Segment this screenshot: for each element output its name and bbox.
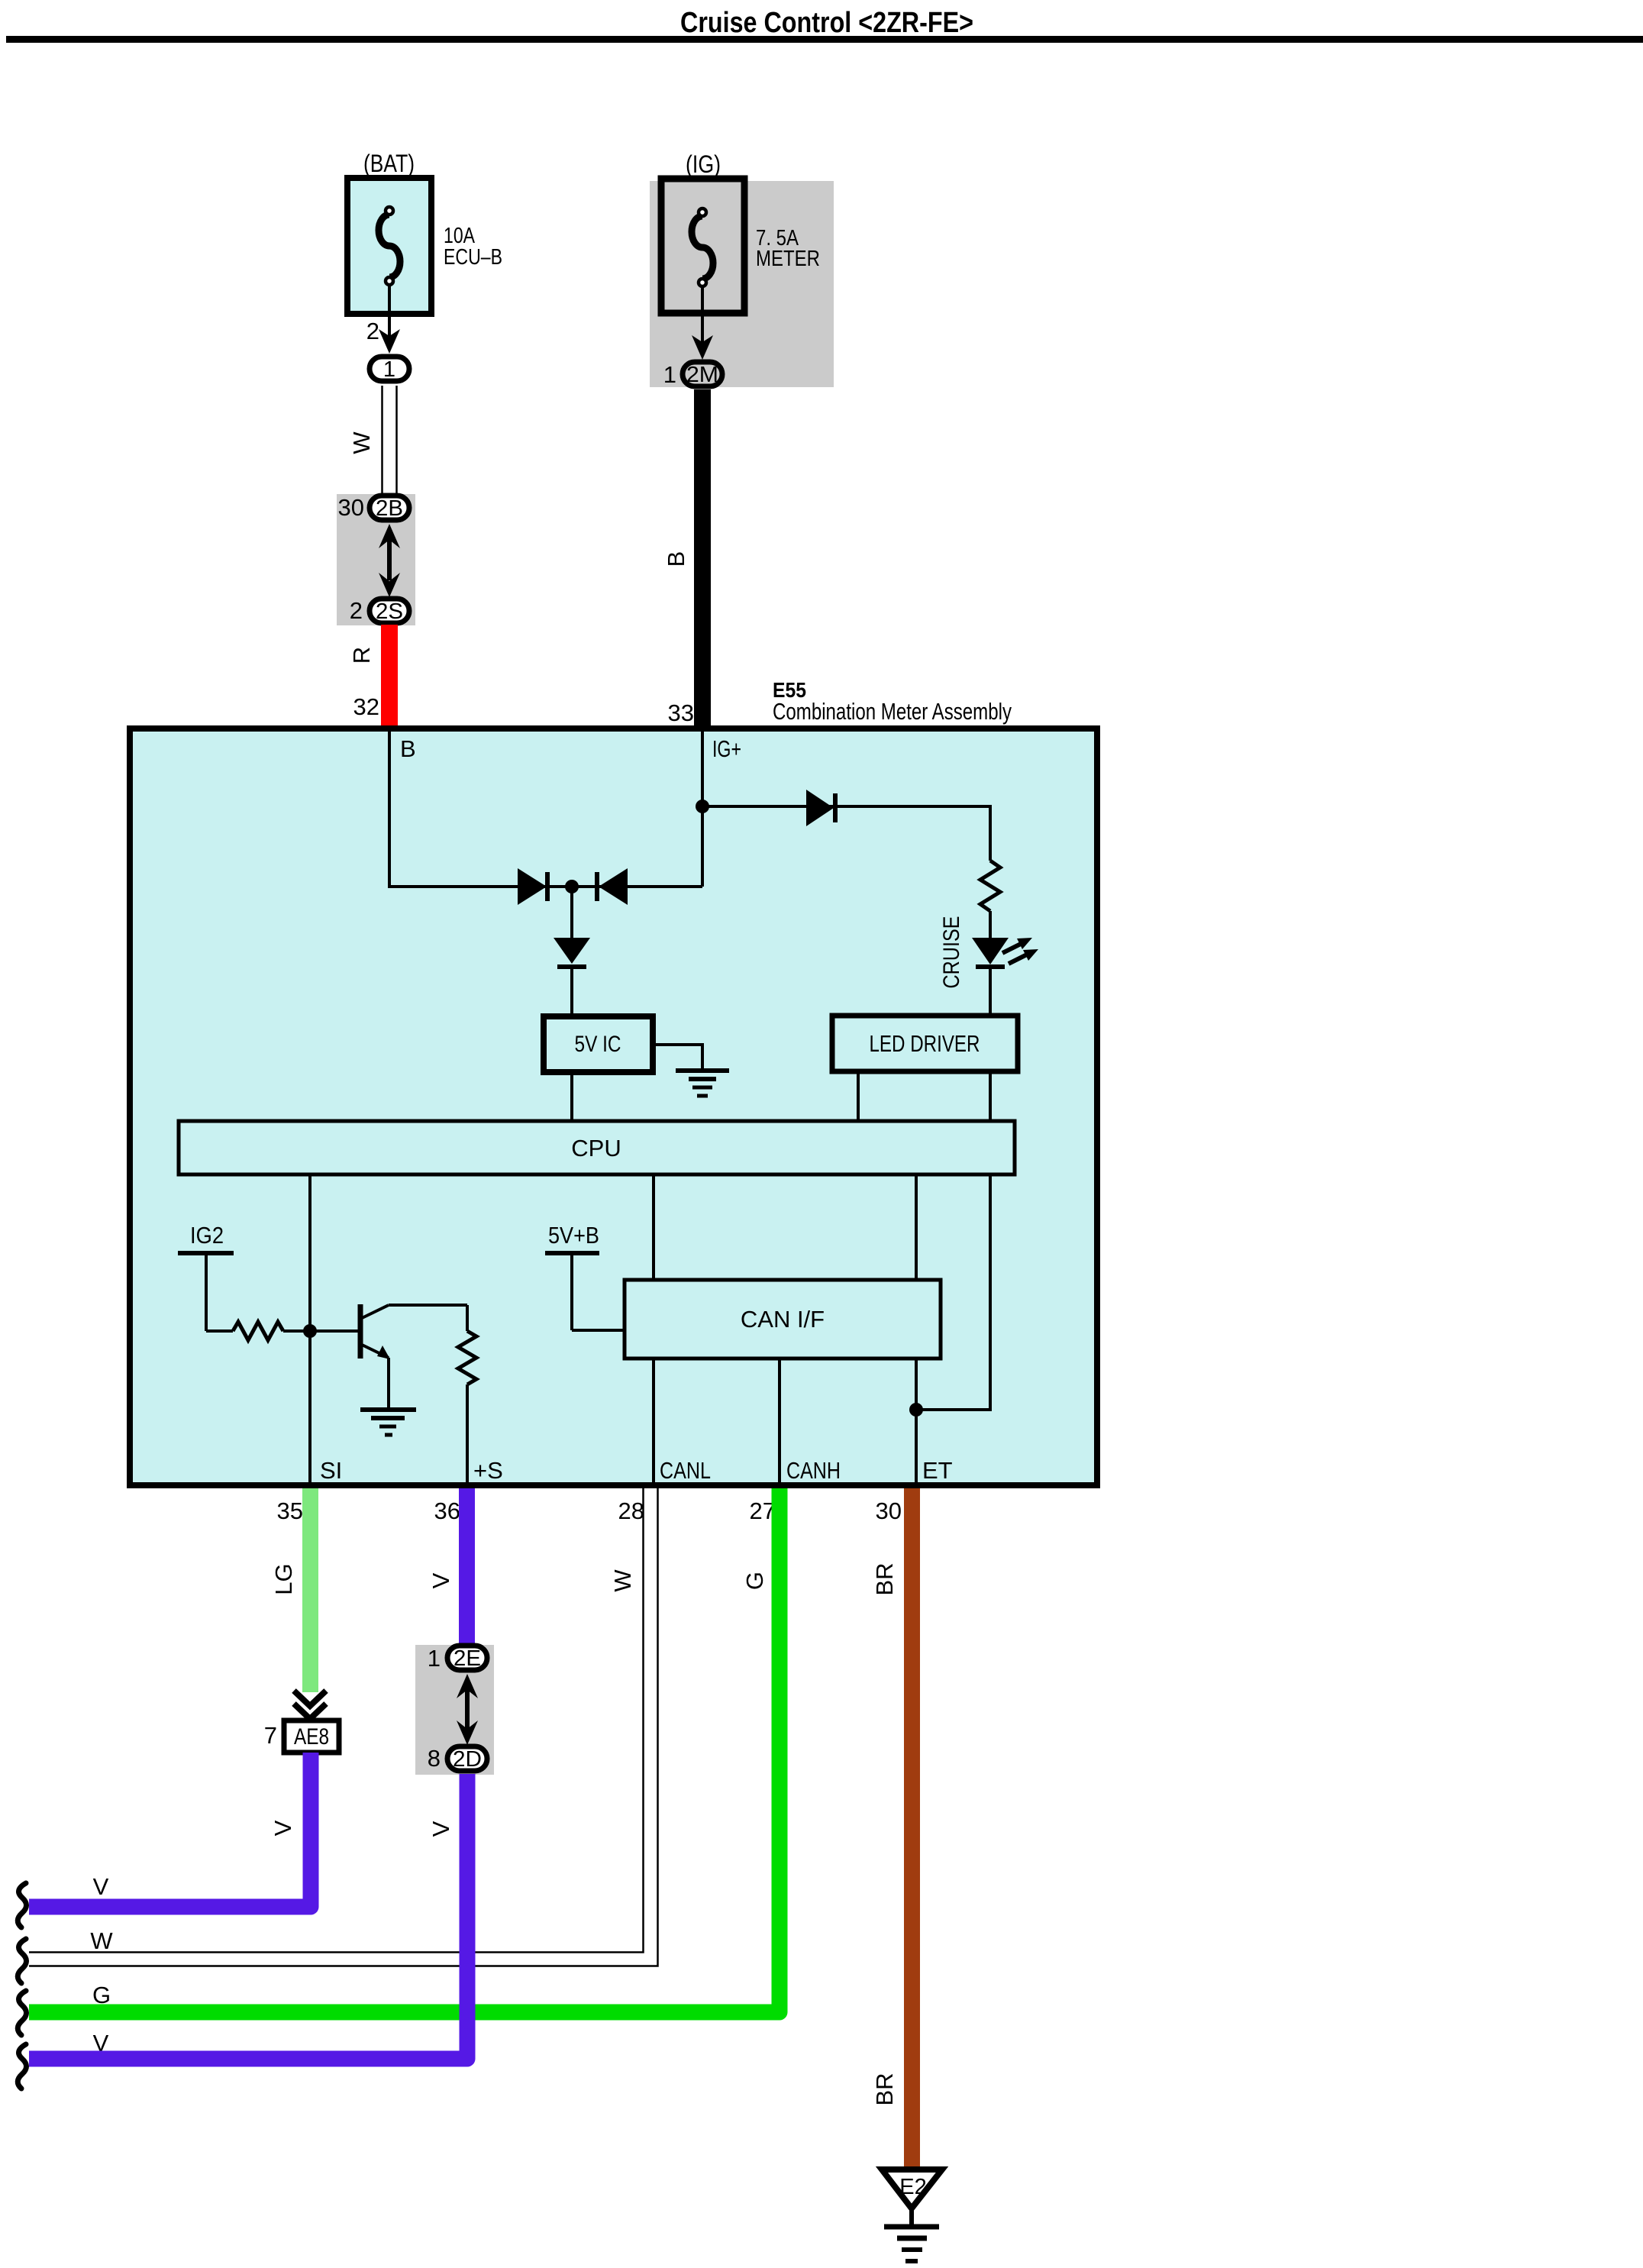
node junction diodes [565, 880, 579, 893]
wire W (double line) connector 1 to 2B [381, 386, 383, 495]
svg-text:33: 33 [668, 699, 694, 726]
svg-text:1: 1 [663, 361, 676, 388]
diode D3 [806, 790, 834, 826]
gray block IG [650, 181, 834, 387]
resistor base [233, 1322, 283, 1340]
wires CAN I/F to pins [652, 1359, 655, 1485]
wire BR pin 30 [904, 1488, 920, 2169]
svg-text:W: W [348, 431, 375, 454]
svg-text:R: R [348, 647, 375, 664]
svg-text:LG: LG [270, 1563, 297, 1594]
svg-text:V: V [93, 1873, 109, 1900]
LED DRIVER box [832, 1016, 1018, 1071]
svg-text:B: B [400, 735, 416, 762]
svg-text:28: 28 [618, 1497, 644, 1524]
svg-text:1: 1 [428, 1645, 441, 1672]
svg-text:Cruise Control <2ZR-FE>: Cruise Control <2ZR-FE> [680, 7, 973, 39]
svg-text:2M: 2M [686, 363, 718, 387]
IG2 supply bar [178, 1251, 234, 1255]
svg-text:IG+: IG+ [712, 735, 741, 762]
svg-text:CANL: CANL [660, 1457, 711, 1484]
svg-text:CPU: CPU [571, 1135, 621, 1161]
svg-text:30: 30 [338, 494, 364, 521]
title rule [6, 36, 1643, 43]
5V+B supply bar [545, 1251, 599, 1255]
wire fuse to connector 2M [701, 287, 704, 346]
svg-text:36: 36 [434, 1497, 460, 1524]
wire 5V IC to ground [656, 1045, 702, 1071]
svg-text:+S: +S [473, 1457, 503, 1484]
svg-text:Combination Meter Assembly: Combination Meter Assembly [773, 698, 1012, 725]
fuse METER element [692, 216, 713, 279]
wires CPU to CAN I/F [652, 1174, 655, 1280]
fuse METER body [661, 179, 744, 313]
wires LED DRIVER to CPU [857, 1071, 860, 1121]
svg-text:G: G [92, 1982, 111, 2008]
wire SI from CPU [308, 1174, 311, 1485]
fuse ECU-B body [347, 178, 431, 314]
continuation squiggle W [18, 1939, 26, 1983]
wire W pin 28 (double line) [29, 1488, 644, 1953]
connector 2D [447, 1746, 487, 1771]
transistor Q1 [358, 1304, 363, 1359]
svg-text:5V IC: 5V IC [575, 1032, 621, 1057]
continuation squiggle V1 [18, 1883, 26, 1927]
wire V pin 36 [459, 1488, 475, 1644]
svg-text:V: V [428, 1572, 454, 1588]
node SI base [303, 1324, 317, 1338]
wire LG pin 35 [302, 1488, 318, 1692]
svg-text:CAN I/F: CAN I/F [741, 1306, 825, 1333]
wire ET to CPU [916, 1174, 990, 1410]
ground internal 2 [360, 1407, 416, 1412]
svg-text:V: V [270, 1820, 296, 1836]
E55 combination meter box [130, 729, 1097, 1485]
wire IG+ internal [701, 732, 704, 887]
ground E2 [882, 2169, 942, 2208]
ground internal 1 [676, 1068, 729, 1073]
svg-text:7: 7 [264, 1722, 277, 1749]
chevron arrows into AE8 [294, 1691, 326, 1706]
svg-text:V: V [428, 1821, 454, 1837]
node ET junction [909, 1403, 923, 1417]
wire fuse to connector 1 [388, 286, 391, 341]
svg-text:1: 1 [383, 357, 395, 382]
svg-text:G: G [741, 1572, 768, 1590]
svg-text:E2: E2 [899, 2175, 926, 2199]
connector 2E/2D shield [415, 1645, 494, 1775]
svg-text:8: 8 [428, 1745, 441, 1772]
svg-text:BR: BR [871, 1562, 898, 1595]
svg-text:(BAT): (BAT) [363, 150, 415, 177]
svg-text:(IG): (IG) [686, 150, 721, 178]
arrow into connector 1 [379, 329, 400, 354]
diode D1 [518, 868, 547, 905]
wire R 2S to pin 32 [381, 625, 398, 729]
svg-text:W: W [90, 1927, 113, 1954]
wire G pin 27 [29, 1488, 780, 2012]
5V IC box [544, 1016, 653, 1072]
resistor +S [466, 1305, 469, 1331]
connector 2E [447, 1646, 487, 1670]
wire B 2M to pin 33 [694, 389, 711, 729]
junction arrows 2E-2D [457, 1674, 478, 1698]
connector AE8 [284, 1720, 339, 1753]
svg-text:32: 32 [353, 693, 379, 720]
svg-text:2: 2 [350, 597, 363, 624]
connector 1 [370, 357, 409, 381]
svg-text:METER: METER [756, 247, 820, 271]
svg-text:2S: 2S [376, 599, 403, 624]
svg-text:B: B [663, 551, 689, 567]
connector 2B [370, 496, 409, 520]
svg-text:ECU–B: ECU–B [444, 245, 502, 270]
connector 2M [683, 362, 722, 386]
svg-text:CRUISE: CRUISE [939, 916, 964, 989]
svg-text:2B: 2B [376, 496, 403, 521]
LED cruise [972, 938, 1009, 964]
svg-text:LED DRIVER: LED DRIVER [870, 1030, 980, 1057]
node IG+ branch [696, 800, 709, 813]
wire LED to driver [989, 967, 992, 1016]
wire V AE8 down-left [29, 1753, 311, 1907]
svg-text:2E: 2E [454, 1646, 481, 1671]
svg-text:W: W [609, 1569, 636, 1592]
resistor cruise lamp [980, 861, 1000, 911]
wire emitter to ground [387, 1358, 390, 1409]
connector 2B/2S shield [337, 494, 415, 625]
continuation squiggle V2 [18, 2044, 26, 2089]
svg-text:SI: SI [320, 1457, 342, 1484]
svg-text:2D: 2D [453, 1747, 482, 1772]
svg-text:5V+B: 5V+B [548, 1222, 599, 1249]
svg-text:35: 35 [277, 1497, 303, 1524]
diode D4 [554, 938, 590, 964]
svg-text:2: 2 [366, 318, 379, 344]
svg-text:30: 30 [876, 1497, 902, 1524]
arrow into connector 2M [692, 335, 713, 360]
svg-text:BR: BR [871, 2073, 898, 2105]
connector 2S [370, 599, 409, 623]
wire V 2D down-left [29, 1774, 467, 2059]
svg-text:CANH: CANH [786, 1457, 841, 1484]
junction arrows 2B-2S [379, 524, 400, 548]
svg-text:AE8: AE8 [294, 1724, 329, 1749]
wire IG+ to cruise lamp [702, 806, 990, 861]
fuse ECU-B element [379, 215, 400, 277]
svg-text:IG2: IG2 [190, 1222, 224, 1249]
CAN I/F box [625, 1280, 941, 1359]
continuation squiggle G [18, 1991, 26, 2035]
svg-text:ET: ET [922, 1457, 953, 1484]
wire diode junction down [570, 887, 573, 938]
diode D2 [599, 868, 628, 905]
CPU box [179, 1121, 1015, 1174]
wire B internal [389, 732, 702, 887]
wire 5VIC to CPU [570, 1072, 573, 1121]
